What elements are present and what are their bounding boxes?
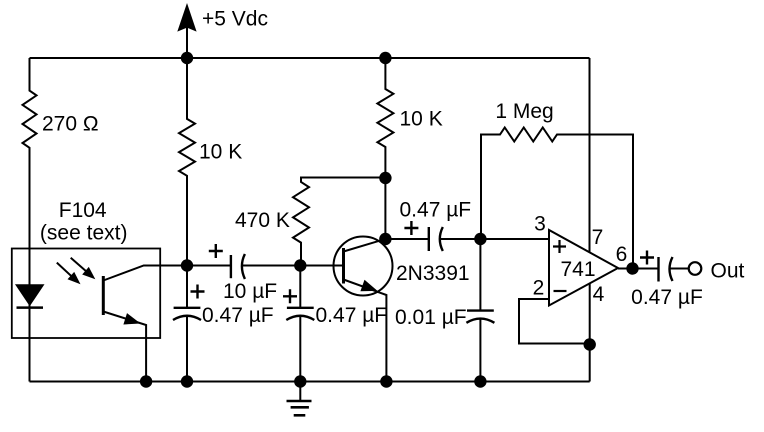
plus of output cap — [640, 251, 654, 265]
node dot bottom 0.01uF — [474, 375, 486, 387]
node dot bottom ground — [294, 375, 306, 387]
svg-text:10 K: 10 K — [199, 141, 242, 164]
svg-text:F104: F104 — [59, 199, 107, 222]
svg-text:0.47 µF: 0.47 µF — [631, 286, 703, 309]
LED diode inside F104 — [15, 284, 45, 307]
svg-text:1 Meg: 1 Meg — [495, 100, 553, 123]
svg-text:2: 2 — [533, 276, 545, 299]
svg-text:0.47 µF: 0.47 µF — [400, 199, 472, 222]
phototransistor emitter arrowhead — [123, 313, 140, 324]
node dot Q1 collector — [379, 233, 391, 245]
phototransistor collector wire to node — [103, 266, 187, 281]
node dot bottom Q1 emitter — [380, 375, 392, 387]
capacitor 0.47 uF output — [659, 257, 689, 282]
node dot top 10K right — [379, 52, 391, 64]
wire pin4 riser — [589, 284, 591, 382]
ground symbol — [287, 382, 312, 416]
node dot bottom emitter opto — [140, 375, 152, 387]
optocoupler F104 box — [12, 249, 160, 339]
resistor 270 ohm with left rail — [23, 58, 37, 382]
svg-text:10 µF: 10 µF — [223, 280, 277, 303]
light arrow 1 — [57, 263, 81, 285]
transistor Q1 2N3391 circle — [334, 237, 393, 296]
capacitor 0.47 uF no2 — [286, 266, 314, 382]
node dot bottom cap1 — [181, 375, 193, 387]
op-amp plus input mark — [553, 240, 566, 253]
feedback wire pin2 loop — [519, 299, 590, 344]
output wire pin6 — [618, 268, 659, 270]
resistor 470 K with top wire to collector node — [293, 178, 385, 266]
output terminal circle — [689, 262, 702, 275]
node dot feedback pin4 — [584, 338, 596, 350]
wire bottom rail — [30, 381, 590, 383]
resistor 10 K left with leads — [179, 58, 195, 266]
svg-text:7: 7 — [592, 226, 604, 249]
capacitor 0.47 uF no1 — [173, 266, 201, 382]
svg-text:4: 4 — [593, 283, 605, 306]
svg-text:2N3391: 2N3391 — [396, 262, 470, 285]
op-amp minus input mark — [554, 290, 567, 292]
capacitor 0.47 uF coupling — [385, 227, 480, 251]
node dot 470K top — [379, 172, 391, 184]
svg-text:470 K: 470 K — [235, 209, 290, 232]
capacitor 0.01 uF — [466, 239, 494, 382]
svg-text:6: 6 — [616, 243, 628, 266]
svg-text:(see text): (see text) — [40, 222, 128, 245]
phototransistor emitter wire — [103, 312, 146, 382]
node dot collector opto / 10uF — [181, 259, 193, 271]
capacitor 10 uF — [187, 254, 300, 279]
Q1 base bar — [342, 248, 345, 284]
svg-text:10 K: 10 K — [400, 107, 443, 130]
svg-text:3: 3 — [534, 213, 546, 236]
power arrow +5 Vdc — [177, 3, 196, 58]
resistor 1 Meg feedback — [481, 128, 633, 269]
plus of 10 uF — [209, 244, 223, 258]
svg-text:Out: Out — [711, 260, 745, 283]
node dot top 10K left — [181, 52, 193, 64]
wire node to op-amp pin3 — [480, 238, 549, 240]
light arrow 2 — [71, 258, 96, 279]
phototransistor base bar — [102, 276, 105, 315]
wire top rail — [30, 57, 590, 59]
svg-text:0.47 µF: 0.47 µF — [316, 304, 388, 327]
plus of 0.47 uF no1 — [191, 285, 205, 299]
Q1 base lead — [300, 265, 343, 267]
Q1 emitter — [344, 280, 387, 382]
svg-text:0.47 µF: 0.47 µF — [202, 304, 274, 327]
svg-text:270 Ω: 270 Ω — [42, 113, 99, 136]
node dot pin3 — [474, 233, 486, 245]
svg-text:0.01 µF: 0.01 µF — [395, 306, 467, 329]
Q1 emitter arrowhead — [360, 280, 377, 291]
op-amp U1 741 triangle — [549, 230, 618, 306]
Q1 collector — [344, 239, 386, 252]
resistor 10 K right with leads — [377, 58, 393, 239]
wire pin7 drop — [589, 58, 591, 253]
node dot output pin6 — [626, 262, 638, 274]
svg-text:+5 Vdc: +5 Vdc — [202, 8, 268, 31]
plus of coupling cap — [404, 221, 418, 235]
node dot base Q1 — [294, 259, 306, 271]
plus of 0.47 uF no2 — [283, 289, 297, 303]
svg-text:741: 741 — [560, 258, 595, 281]
